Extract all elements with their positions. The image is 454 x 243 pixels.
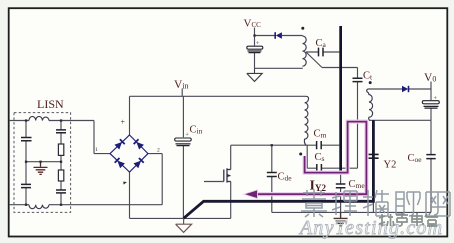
- wire MOSFET gate stub: [204, 181, 224, 183]
- winding secondary (Ns): [367, 89, 373, 120]
- watermark solid text: [379, 213, 438, 226]
- svg-text:V0: V0: [424, 72, 436, 84]
- diode D_vcc: [275, 32, 282, 39]
- node aux polarity dot: [301, 27, 304, 30]
- capacitor Cme: [336, 184, 346, 188]
- wire bridge bottom to ground rail: [130, 172, 231, 218]
- capacitor Cde: [267, 173, 277, 177]
- label bridge minus: [123, 182, 127, 185]
- wire Coe branch: [430, 120, 432, 212]
- bold IY2 loop (magenta) glow: [248, 122, 366, 195]
- capacitor Cout (electrolytic): [422, 95, 439, 108]
- watermark big outlined characters: [301, 190, 450, 217]
- diode D_out: [402, 86, 409, 92]
- winding aux (Na): [303, 36, 307, 66]
- diode bridge frame: [110, 135, 148, 172]
- wire drain rail: [231, 145, 340, 169]
- solid char 2: [396, 213, 408, 226]
- diode bridge D3 (bottom-left): [115, 158, 125, 168]
- svg-text:LISN: LISN: [37, 97, 64, 111]
- node secondary polarity dot: [369, 81, 372, 84]
- capacitor Vcc (electrolytic): [247, 40, 263, 52]
- wire MOSFET source down: [230, 182, 232, 219]
- char 3: [363, 190, 389, 216]
- svg-text:Y2: Y2: [384, 160, 397, 171]
- capacitor Ca: [319, 48, 324, 57]
- wire LISN right branch: [60, 121, 62, 205]
- wire Vin bus: [130, 95, 307, 97]
- wire Cde branch: [271, 145, 273, 212]
- arrowhead IY2: [244, 190, 258, 199]
- bold IY2 loop (magenta) core: [250, 122, 366, 195]
- svg-text:Cm: Cm: [314, 129, 327, 140]
- ground Vcc (triangle): [247, 68, 262, 81]
- char 4: [396, 192, 420, 216]
- svg-text:2: 2: [157, 148, 160, 154]
- char 5: [426, 192, 450, 216]
- char 1: [301, 190, 327, 217]
- diode bridge D1 (top-left): [114, 139, 124, 149]
- wire LISN left branch: [25, 121, 27, 205]
- wire Cme branch: [340, 174, 342, 212]
- wire earth rail: [272, 211, 431, 213]
- ground secondary earth (bars): [334, 212, 348, 225]
- svg-text:Cme: Cme: [349, 179, 366, 190]
- wire LISN top line: [9, 121, 110, 154]
- wire secondary top: [370, 88, 431, 90]
- capacitor Y2: [369, 154, 379, 158]
- transistor Q1 MOSFET: [224, 168, 231, 182]
- wire aux to Ct diagonal: [306, 52, 358, 68]
- node dot Cde top: [271, 144, 273, 146]
- capacitor Cin (electrolytic): [175, 131, 192, 145]
- diode bridge D2 (top-right): [134, 139, 144, 149]
- capacitor Cm: [317, 141, 322, 149]
- wire Vin tick: [181, 89, 183, 97]
- wire Y2 branch: [372, 120, 374, 212]
- node dot Vcc: [253, 34, 255, 36]
- svg-text:+: +: [434, 95, 438, 102]
- wire V0 tick: [430, 82, 432, 90]
- svg-text:Ct: Ct: [363, 71, 373, 82]
- svg-text:+: +: [256, 40, 260, 47]
- capacitor Coe: [426, 155, 435, 159]
- solid char 1: [379, 214, 394, 226]
- capacitor LISN C3 (right top): [56, 130, 66, 133]
- svg-text:Cde: Cde: [278, 172, 293, 183]
- wire bridge right to LISN bottom: [148, 154, 162, 205]
- svg-text:Cs: Cs: [315, 152, 325, 163]
- capacitor LISN C1 (left top): [21, 138, 32, 141]
- inductor LISN L1 (top): [29, 116, 49, 120]
- wire Vcc rail: [255, 35, 303, 37]
- shield bar (transformer): [339, 26, 342, 174]
- node primary polarity dot: [299, 153, 302, 156]
- svg-text:Vin: Vin: [174, 79, 189, 91]
- wire Ca: [306, 51, 339, 53]
- LISN dashed box: [14, 113, 71, 213]
- solid char 4: [425, 213, 438, 226]
- solid char 3: [412, 213, 424, 226]
- char 2: [332, 191, 357, 216]
- wire bridge top to Vin bus: [129, 96, 131, 135]
- bold earth-return path (navy): [184, 120, 374, 218]
- ground main (triangle at LISN earth): [176, 218, 192, 232]
- diode bridge D4 (bottom-right): [133, 158, 143, 168]
- wire Vcc tick: [254, 28, 256, 36]
- node dots LISN: [25, 119, 62, 206]
- inductor LISN L2 (bottom): [29, 205, 49, 209]
- ground LISN (earth bars): [34, 162, 48, 175]
- wire Vcc cap branch: [254, 36, 256, 69]
- capacitor LISN C4 (right bottom): [56, 190, 66, 193]
- capacitor Cs: [317, 164, 322, 172]
- svg-text:1: 1: [95, 147, 98, 153]
- wire aux return: [255, 67, 303, 69]
- wire Cin branch: [182, 96, 184, 218]
- wire Cs branch: [307, 145, 357, 168]
- wire Ct branch: [357, 68, 359, 169]
- resistor LISN R2: [58, 170, 63, 181]
- svg-text:Coe: Coe: [408, 153, 423, 164]
- wire output cap branch: [430, 89, 432, 120]
- wire secondary bottom rail: [369, 119, 431, 121]
- svg-text:Ca: Ca: [316, 38, 327, 49]
- capacitor Ct: [353, 78, 363, 81]
- svg-text:+: +: [121, 118, 126, 127]
- capacitor LISN C2 (left bottom): [21, 184, 31, 187]
- wire LISN middle rail: [26, 161, 61, 163]
- wire LISN bottom line: [9, 204, 162, 206]
- winding primary (Np): [304, 96, 308, 145]
- resistor LISN R1: [58, 144, 63, 155]
- svg-text:Cin: Cin: [190, 125, 203, 136]
